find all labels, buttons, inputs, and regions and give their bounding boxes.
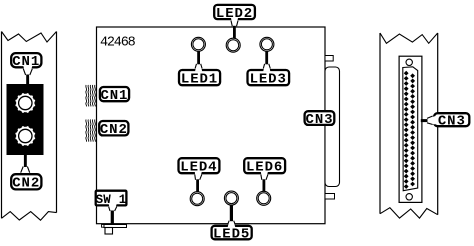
pointer CN3 to D-sub [421,116,436,125]
D-sub pins (2 staggered columns) [404,71,415,189]
LED D4 [190,192,204,206]
connector label CN1 (board) [100,87,129,104]
svg-text:LED5: LED5 [213,226,250,242]
svg-text:CN3: CN3 [438,114,466,130]
pointer CN2 to bracket connector [21,155,30,176]
connector CN2 pin symbol [86,120,96,142]
label LED4 [179,158,220,175]
label LED5 [212,226,252,243]
svg-text:LED1: LED1 [181,71,218,87]
LED D3 [260,37,274,51]
label LED3 [248,70,290,87]
pointer LED1 [195,51,202,71]
switch label SW1 [96,191,127,207]
left mounting bracket outline [2,32,57,221]
switch SW1 body below board edge [102,225,127,235]
svg-text:CN2: CN2 [12,176,40,192]
connector label CN2 (board) [99,121,128,138]
LED D2 [226,38,240,52]
pointer SW1 [109,204,117,224]
svg-text:CN2: CN2 [100,122,128,138]
D-sub screw hole top [406,59,412,65]
svg-text:CN3: CN3 [306,112,334,128]
svg-text:LED3: LED3 [250,71,287,87]
connector label CN3 (panel) [434,113,469,129]
pointer LED3 [263,51,270,71]
svg-text:42468: 42468 [100,36,136,51]
bracket connector housing (black) [7,84,44,155]
label LED1 [179,70,220,87]
label LED2 [214,5,255,22]
pointer LED6 [261,172,268,192]
BNC connector CN1 on bracket [15,93,35,113]
svg-text:CN1: CN1 [100,88,128,104]
right mounting bracket outline [380,33,438,218]
pointer LED5 [228,206,236,228]
connector CN1 pin symbol [86,85,96,106]
pointer CN1 to bracket connector [23,66,32,85]
label LED6 [244,158,285,175]
PCB board outline 42468 [97,27,326,224]
LED D6 [257,191,271,205]
D-sub connector CN3 flange [399,56,422,202]
connector label CN1 (bracket) [11,53,41,70]
connector label CN3 (board) [305,111,335,128]
pointer LED4 [195,172,202,192]
D-sub screw hole bottom [406,194,412,200]
CN3 edge connector bottom tab [325,194,335,200]
LED D5 [224,191,238,205]
connector label CN2 (bracket) [11,174,41,191]
BNC connector CN2 on bracket [15,126,35,146]
D-sub connector face [403,67,418,191]
CN3 edge connector body [325,67,340,187]
LED D1 [191,37,205,51]
pointer LED2 [231,18,238,39]
CN3 edge connector top tab [325,56,333,62]
